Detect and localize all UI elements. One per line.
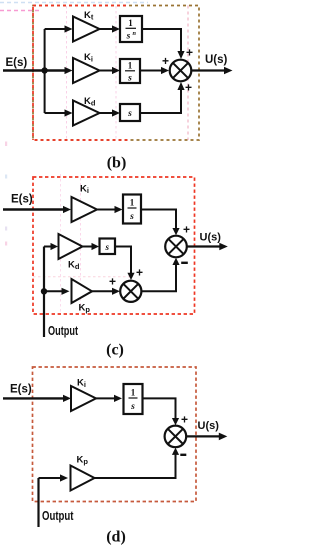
svg-text:1: 1: [131, 388, 136, 398]
red dashed frame (c): [33, 177, 195, 314]
wire Kd to block s (c): [83, 246, 93, 248]
svg-text:+: +: [136, 266, 143, 280]
wire to Kp (c): [44, 290, 62, 292]
wire block to summer top (d): [143, 398, 176, 422]
svg-text:s: s: [130, 402, 135, 412]
margin speck: [5, 142, 7, 147]
wire output U(s) (b): [191, 69, 224, 71]
gain triangle Kd (b): [73, 101, 100, 126]
wire block to summer top (b): [142, 29, 181, 52]
guide line blue top: [0, 2, 148, 4]
svg-text:Kd: Kd: [68, 260, 80, 272]
svg-text:n: n: [133, 30, 137, 37]
wire E(s) input (d): [3, 397, 64, 399]
wire feedback vertical (c): [43, 247, 45, 338]
margin speck: [5, 242, 7, 246]
svg-text:(b): (b): [107, 155, 127, 172]
wire bottom branch (b): [45, 112, 65, 114]
svg-text:Kp: Kp: [79, 303, 91, 315]
gain triangle Kt: [73, 17, 100, 42]
wire block s to small summer (c): [115, 247, 131, 277]
sign minus bottom (d): [180, 454, 186, 456]
svg-text:Ki: Ki: [84, 52, 93, 64]
wire Ki to block (d): [96, 397, 115, 399]
svg-text:(c): (c): [106, 342, 124, 359]
block s (b): [120, 104, 140, 121]
block 1/s (b): [120, 59, 140, 83]
wire Kp to summer bottom (d): [95, 451, 176, 479]
faint pink guide vertical x=66 (b): [66, 6, 68, 139]
wire vertical branch (b): [44, 29, 46, 113]
summing junction big (c): [165, 236, 187, 258]
svg-text:s: s: [126, 32, 131, 42]
faint pink guide horizontal (c): [33, 276, 131, 278]
svg-text:U(s): U(s): [205, 54, 228, 66]
svg-text:Ki: Ki: [77, 378, 86, 390]
svg-text:+: +: [185, 81, 192, 95]
wire E(s) input (c): [3, 208, 64, 210]
summing junction (b): [170, 60, 192, 82]
wire output U(s) (c): [187, 245, 220, 247]
wire E(s) input (b): [3, 69, 65, 71]
faint pink guide vertical (c): [80, 178, 82, 313]
wire block to summer top (c): [141, 210, 176, 233]
gain triangle Ki (d): [71, 386, 96, 411]
red dashed frame (b): [33, 5, 128, 7]
svg-text:E(s): E(s): [10, 384, 32, 396]
wire small summer to big summer (c): [141, 261, 176, 292]
svg-text:(d): (d): [106, 529, 126, 546]
svg-text:s: s: [127, 74, 132, 84]
wire Kp to small summer (c): [92, 290, 113, 292]
block s (c): [100, 239, 116, 255]
block 1/s (d): [124, 384, 143, 414]
svg-text:+: +: [183, 223, 190, 237]
red-brown dashed frame (d): [33, 367, 197, 502]
svg-text:s: s: [104, 242, 109, 252]
svg-text:Kp: Kp: [77, 455, 89, 467]
svg-text:Ki: Ki: [80, 184, 89, 196]
block 1/s (c): [123, 195, 141, 224]
svg-text:+: +: [181, 413, 188, 427]
svg-text:Output: Output: [42, 509, 74, 523]
summing junction small (c): [120, 281, 141, 302]
svg-text:s: s: [127, 109, 132, 119]
svg-text:Output: Output: [48, 324, 79, 338]
svg-text:U(s): U(s): [198, 420, 220, 432]
margin speck: [5, 227, 7, 231]
wire block to summer left (b): [140, 70, 162, 72]
wire block to summer bottom (b): [140, 90, 181, 114]
wire top branch (b): [45, 28, 65, 30]
block 1/s^n: [120, 16, 142, 42]
gain triangle Kd (c): [59, 234, 83, 259]
wire output U(s) (d): [186, 435, 219, 437]
svg-text:U(s): U(s): [200, 232, 222, 244]
svg-text:E(s): E(s): [11, 194, 33, 206]
gain triangle Kp (d): [71, 466, 95, 491]
node junction dot (b): [41, 67, 47, 73]
wire to Kd (c): [44, 246, 52, 248]
summing junction (d): [165, 426, 187, 448]
svg-text:+: +: [186, 46, 193, 60]
faint pink inner right edge (b): [187, 6, 189, 141]
svg-text:1: 1: [130, 198, 135, 208]
margin speck: [5, 175, 7, 179]
wire Kt to block (b): [100, 28, 113, 30]
svg-text:E(s): E(s): [6, 57, 28, 69]
node junction dot (c): [41, 288, 47, 294]
sign minus bottom (c): [181, 262, 188, 264]
svg-text:s: s: [129, 212, 134, 222]
wire Ki to block (c): [97, 209, 115, 211]
gain triangle Ki (c): [72, 197, 98, 222]
gain triangle Ki (b): [73, 58, 100, 83]
guide line pink top-left: [0, 10, 42, 12]
svg-text:Kd: Kd: [84, 96, 96, 108]
svg-text:1: 1: [128, 18, 133, 28]
wire mid branch (b): [65, 67, 73, 74]
svg-text:1: 1: [128, 61, 133, 71]
svg-text:Kt: Kt: [84, 10, 94, 22]
wire to Kp (d): [39, 477, 61, 479]
wire Ki to block (b): [100, 70, 113, 72]
svg-text:+: +: [109, 275, 116, 289]
wire feedback vertical (d): [37, 478, 39, 527]
svg-text:+: +: [162, 54, 169, 68]
gain triangle Kp (c): [72, 279, 93, 303]
olive dashed frame (b): [33, 6, 199, 141]
wire Kd to block (b): [100, 112, 113, 114]
faint pink guide vertical x=116 (b): [115, 6, 117, 139]
